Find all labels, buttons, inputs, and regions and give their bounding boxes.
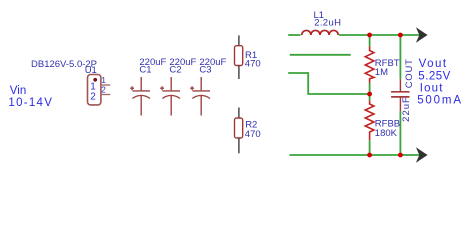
svg-text:Iout: Iout xyxy=(420,82,444,94)
svg-text:470: 470 xyxy=(245,59,261,70)
svg-text:C2: C2 xyxy=(169,65,181,76)
svg-text:Vout: Vout xyxy=(419,58,448,70)
svg-text:1M: 1M xyxy=(375,67,388,78)
svg-text:Vin: Vin xyxy=(10,85,26,97)
svg-text:10-14V: 10-14V xyxy=(8,97,53,109)
svg-text:500mA: 500mA xyxy=(417,94,463,106)
svg-text:2: 2 xyxy=(90,92,96,103)
svg-text:1: 1 xyxy=(101,75,106,85)
svg-text:C1: C1 xyxy=(139,65,151,76)
svg-text:470: 470 xyxy=(245,129,261,140)
svg-text:2: 2 xyxy=(101,85,106,95)
svg-text:2.2uH: 2.2uH xyxy=(314,18,341,29)
svg-text:COUT: COUT xyxy=(404,58,415,88)
svg-text:22uF: 22uF xyxy=(401,96,412,122)
svg-text:5.25V: 5.25V xyxy=(418,70,451,82)
svg-text:C3: C3 xyxy=(199,65,211,76)
svg-text:180K: 180K xyxy=(375,128,398,139)
